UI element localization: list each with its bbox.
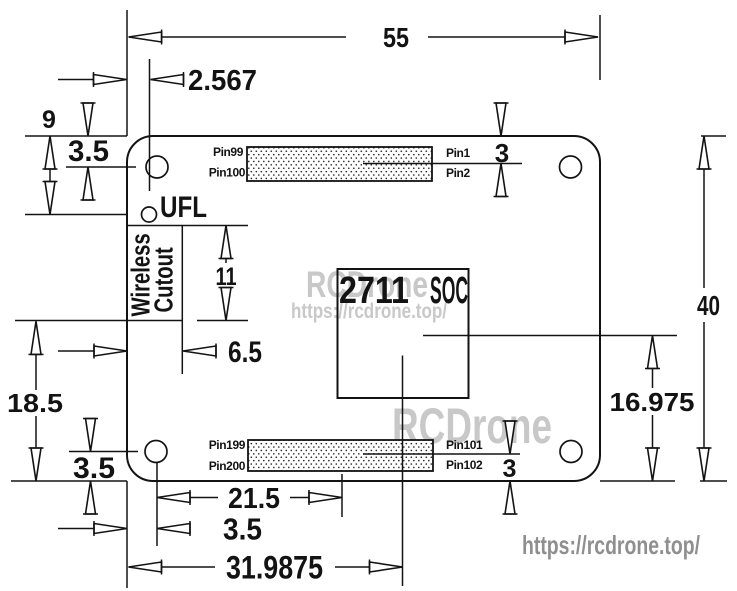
svg-text:SOC: SOC xyxy=(430,270,468,312)
dimension 2.567 leader xyxy=(58,79,94,81)
dimension 3.5 top-left arrows xyxy=(81,103,96,136)
dimension 3.5 bottom arrows xyxy=(94,521,127,536)
svg-text:Pin101: Pin101 xyxy=(446,438,483,452)
svg-text:6.5: 6.5 xyxy=(228,336,262,369)
wireless cutout bottom edge + left extension xyxy=(15,320,182,322)
extension line: left board edge below xyxy=(126,481,128,588)
svg-text:3: 3 xyxy=(495,138,509,168)
mounting hole bottom-right xyxy=(560,441,582,463)
dimension 3.5 bottom leader xyxy=(58,528,94,530)
mounting hole top-right xyxy=(560,156,582,178)
dimension 21.5 line xyxy=(157,497,218,499)
mounting hole bottom-left xyxy=(145,441,167,463)
svg-text:3: 3 xyxy=(503,455,517,483)
bottom connector J2 hatched xyxy=(248,440,433,471)
extension line: top far right for 40 xyxy=(701,135,726,137)
svg-text:UFL: UFL xyxy=(160,191,207,224)
dimension 31.9875 line xyxy=(129,566,216,568)
board outline xyxy=(127,136,600,481)
dimension 40 arrows xyxy=(697,136,712,169)
dimension 40 line xyxy=(703,136,705,288)
svg-text:21.5: 21.5 xyxy=(228,483,280,515)
extension line: right for 55 xyxy=(599,15,601,80)
svg-text:Pin2: Pin2 xyxy=(446,166,470,180)
svg-text:Pin200: Pin200 xyxy=(209,459,246,473)
wireless cutout top edge xyxy=(127,225,248,227)
SOC center horizontal extension line xyxy=(423,335,677,337)
dimension 21.5 arrows xyxy=(157,490,190,505)
svg-text:18.5: 18.5 xyxy=(7,388,63,418)
SOC box U1 xyxy=(338,269,469,398)
extension line: bottom far right for 40 xyxy=(700,480,727,482)
svg-text:Pin199: Pin199 xyxy=(209,438,246,452)
svg-text:9: 9 xyxy=(42,106,56,134)
hole center vertical extension bottom-left xyxy=(156,462,158,546)
UFL centerline extension xyxy=(25,214,127,216)
extension line: left board edge above xyxy=(126,10,128,136)
svg-text:3.5: 3.5 xyxy=(223,512,262,547)
dimension 9 line xyxy=(49,136,51,215)
dimension 55 arrows xyxy=(129,30,162,45)
leader line top connector center xyxy=(363,163,522,165)
dimension 55 line xyxy=(129,36,346,38)
dimension 2.567 extension line xyxy=(149,59,151,191)
hole centerline top-left xyxy=(66,166,136,168)
21.5 right extension xyxy=(341,474,343,517)
dimension 11 line xyxy=(225,226,227,264)
svg-text:3.5: 3.5 xyxy=(68,135,109,168)
dimension 3 top arrows xyxy=(494,103,509,136)
dimension 9 arrows xyxy=(43,136,58,169)
SOC center vertical extension line xyxy=(402,356,404,587)
svg-text:Pin100: Pin100 xyxy=(209,166,246,180)
svg-text:3.5: 3.5 xyxy=(73,452,115,485)
svg-text:Pin102: Pin102 xyxy=(446,458,483,472)
svg-text:2711: 2711 xyxy=(339,270,409,312)
mounting hole top-left xyxy=(146,156,168,178)
dimension 3.5 bottom-left arrows xyxy=(83,419,98,452)
dimension 2.567 arrows xyxy=(94,72,127,87)
svg-text:31.9875: 31.9875 xyxy=(226,550,323,586)
svg-text:16.975: 16.975 xyxy=(610,387,695,417)
svg-text:Pin99: Pin99 xyxy=(213,145,244,159)
dimension 31.9875 arrows xyxy=(129,560,162,575)
dimension 11 arrows xyxy=(219,226,234,259)
extension line: bottom board edge left xyxy=(11,480,127,482)
svg-text:40: 40 xyxy=(697,290,720,321)
svg-text:Cutout: Cutout xyxy=(149,247,178,312)
svg-text:https://rcdrone.top/: https://rcdrone.top/ xyxy=(522,530,700,560)
leader line bottom connector center xyxy=(363,453,520,455)
svg-text:2.567: 2.567 xyxy=(188,65,257,97)
dimension 16.975 arrows xyxy=(645,336,660,369)
extension line: top board edge to left xyxy=(25,135,127,137)
dimension 6.5 leader xyxy=(58,350,94,352)
dimension 3 bottom arrows xyxy=(503,421,518,454)
dimension 6.5 arrows xyxy=(94,344,127,359)
hole centerline bottom-left xyxy=(69,451,138,453)
svg-text:55: 55 xyxy=(383,22,409,53)
extension line: bottom board edge right xyxy=(600,480,675,482)
dimension 16.975 line xyxy=(652,336,654,389)
wireless cutout right edge xyxy=(181,226,183,375)
dimension 18.5 arrows xyxy=(29,321,44,354)
dimension 18.5 line xyxy=(35,321,37,390)
svg-text:Pin1: Pin1 xyxy=(446,146,470,160)
top connector J1 hatched xyxy=(247,147,432,181)
wireless cutout bottom edge right segment xyxy=(197,320,248,322)
UFL connector circle xyxy=(142,207,157,222)
